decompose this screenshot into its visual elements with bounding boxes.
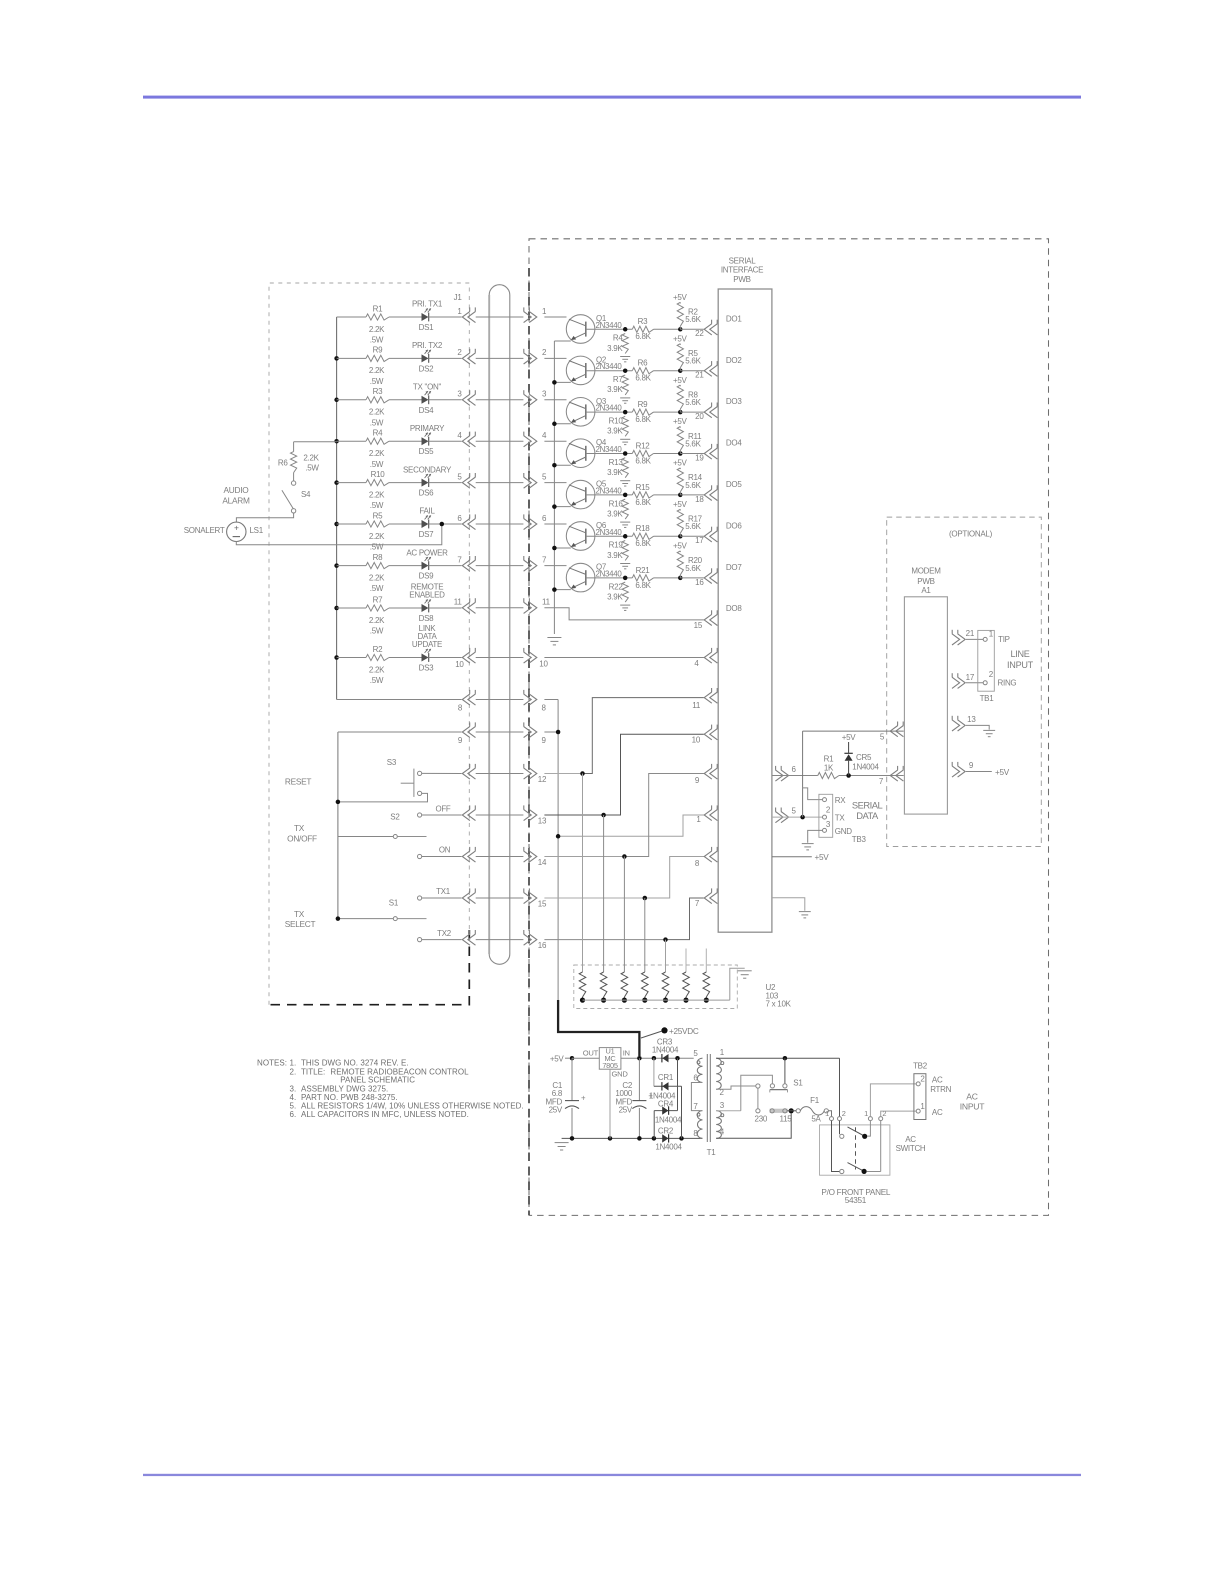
svg-text:5.6K: 5.6K xyxy=(685,357,701,366)
resistor U2-4 10K xyxy=(644,898,646,972)
terminal block TB2 xyxy=(914,1074,926,1120)
svg-text:R5: R5 xyxy=(373,511,383,520)
svg-text:9: 9 xyxy=(458,736,463,745)
svg-text:7: 7 xyxy=(879,777,884,786)
wire fuse to AC switch xyxy=(828,1111,831,1117)
serial PWB pin 6 chevron xyxy=(781,770,789,781)
AC switch pole 1 xyxy=(839,1121,841,1135)
svg-text:2: 2 xyxy=(842,1109,846,1118)
resistor R13 3.9K xyxy=(622,458,628,478)
transformer T1 xyxy=(697,1058,702,1082)
serial PWB pin 19 chevron xyxy=(704,448,712,459)
svg-text:9: 9 xyxy=(969,761,974,770)
svg-text:CR5: CR5 xyxy=(856,753,872,762)
ribbon cable J1 xyxy=(489,285,510,965)
svg-text:+25VDC: +25VDC xyxy=(669,1027,699,1036)
svg-text:6: 6 xyxy=(792,765,797,774)
wire DS9 to J1-7 xyxy=(429,565,462,567)
svg-text:230: 230 xyxy=(755,1114,768,1123)
svg-text:+5V: +5V xyxy=(673,417,688,426)
svg-text:R3: R3 xyxy=(638,317,648,326)
svg-text:2N3440: 2N3440 xyxy=(596,362,623,371)
svg-text:1: 1 xyxy=(864,1109,868,1118)
resistor R19 3.9K xyxy=(622,541,628,561)
svg-text:AC: AC xyxy=(966,1091,977,1101)
svg-text:ALL CAPACITORS IN MFC, UNLESS: ALL CAPACITORS IN MFC, UNLESS NOTED. xyxy=(301,1110,469,1119)
LED DS4 xyxy=(422,396,429,404)
svg-text:+5V: +5V xyxy=(673,500,688,509)
svg-text:16: 16 xyxy=(538,941,547,950)
wire Q7 emitter to bus xyxy=(554,589,570,591)
svg-text:MODEM: MODEM xyxy=(911,567,941,576)
wire Q4 emitter to bus xyxy=(554,464,570,466)
svg-text:CR4: CR4 xyxy=(658,1099,674,1108)
svg-text:INPUT: INPUT xyxy=(1007,660,1034,670)
svg-text:A1: A1 xyxy=(921,586,931,595)
connector J1 pin 13 chevrons xyxy=(462,809,470,820)
resistor U2-7 10K xyxy=(705,949,707,973)
wire J1-14 to serial PWB pin 9 xyxy=(544,856,624,858)
svg-text:TX: TX xyxy=(835,814,846,823)
svg-text:3.9K: 3.9K xyxy=(607,509,623,518)
svg-text:R4: R4 xyxy=(613,334,623,343)
svg-text:LINE: LINE xyxy=(1010,649,1029,659)
svg-text:2.2K: 2.2K xyxy=(369,573,385,582)
svg-text:17: 17 xyxy=(966,673,975,682)
serial PWB pin 7 chevron xyxy=(704,892,712,903)
connector J1 pin 11 chevrons xyxy=(462,602,470,613)
svg-text:11: 11 xyxy=(454,598,463,607)
resistor R10 3.9K xyxy=(622,416,628,436)
svg-text:CR2: CR2 xyxy=(658,1127,674,1136)
svg-text:R1: R1 xyxy=(824,754,834,763)
svg-text:+5V: +5V xyxy=(673,542,688,551)
svg-text:PRI. TX2: PRI. TX2 xyxy=(412,341,443,350)
transistor emitter bus xyxy=(553,341,555,634)
svg-text:UPDATE: UPDATE xyxy=(412,640,442,649)
modem pin 13 chevron to ground xyxy=(958,720,966,731)
modem pin 5 chevron xyxy=(890,726,898,737)
svg-text:11: 11 xyxy=(542,598,551,607)
wire fuse terminal to pole 2 xyxy=(832,1121,840,1172)
svg-text:2.2K: 2.2K xyxy=(369,366,385,375)
resistor R5 2.2K xyxy=(337,523,366,525)
svg-text:S2: S2 xyxy=(390,813,400,822)
svg-text:4: 4 xyxy=(720,1128,725,1137)
+25VDC tag xyxy=(641,1031,663,1038)
svg-text:.5W: .5W xyxy=(370,584,384,593)
svg-text:R19: R19 xyxy=(609,541,624,550)
LED DS1 xyxy=(422,313,429,321)
wire T1 pin6-pin7 link xyxy=(691,1083,702,1111)
resistor U2-1 10K xyxy=(582,774,584,973)
svg-text:3: 3 xyxy=(542,390,547,399)
ground (R10) xyxy=(620,438,630,440)
svg-text:R9: R9 xyxy=(373,346,383,355)
serial interface connector box xyxy=(718,289,772,932)
svg-text:DS8: DS8 xyxy=(419,614,435,623)
svg-text:+5V: +5V xyxy=(673,293,688,302)
svg-text:R7: R7 xyxy=(373,595,383,604)
resistor U2-6 10K xyxy=(685,949,687,973)
resistor R3 2.2K xyxy=(337,399,366,401)
capacitor C2 1000MFD xyxy=(638,1058,640,1100)
svg-text:1N4004: 1N4004 xyxy=(852,763,879,772)
ground (emitter bus) xyxy=(547,637,561,639)
svg-text:R12: R12 xyxy=(636,441,651,450)
svg-text:25V: 25V xyxy=(619,1106,633,1115)
resistor R6 6.8K xyxy=(632,368,653,374)
serial PWB pin 21 chevron xyxy=(704,365,712,376)
svg-text:TX: TX xyxy=(294,909,305,919)
svg-text:10: 10 xyxy=(539,660,548,669)
wire DS1 to J1-1 xyxy=(429,316,462,318)
wire DS6 to J1-5 xyxy=(429,482,462,484)
serial PWB pin 5 chevron xyxy=(781,812,789,823)
svg-text:DATA: DATA xyxy=(856,810,879,821)
svg-text:TB3: TB3 xyxy=(852,835,867,844)
wire Q6 emitter to bus xyxy=(554,547,570,549)
svg-text:J1: J1 xyxy=(454,293,463,302)
diode CR4 1N4004 xyxy=(677,1058,679,1110)
svg-text:3: 3 xyxy=(457,390,462,399)
svg-text:SECONDARY: SECONDARY xyxy=(403,465,452,474)
wire J1-10 to serial PWB pin 4 xyxy=(544,657,703,659)
svg-text:T1: T1 xyxy=(707,1148,717,1157)
svg-text:3: 3 xyxy=(720,1101,725,1110)
svg-text:ON/OFF: ON/OFF xyxy=(287,834,317,844)
ground (TB3) xyxy=(802,843,814,845)
terminal block TB1 xyxy=(978,630,995,691)
svg-text:12: 12 xyxy=(538,775,547,784)
wire Q1 emitter to bus xyxy=(554,340,570,342)
svg-text:5: 5 xyxy=(457,472,462,481)
svg-text:PRIMARY: PRIMARY xyxy=(410,424,445,433)
modem PWB A1 box xyxy=(904,597,947,814)
svg-text:2.2K: 2.2K xyxy=(369,665,385,674)
LED DS9 xyxy=(422,562,429,570)
svg-text:S3: S3 xyxy=(387,758,397,767)
svg-text:RING: RING xyxy=(998,679,1017,688)
svg-text:3.9K: 3.9K xyxy=(607,468,623,477)
modem pin 7 chevron xyxy=(890,770,898,781)
wire J1-9 left xyxy=(338,731,462,733)
svg-text:2N3440: 2N3440 xyxy=(596,321,623,330)
svg-text:8: 8 xyxy=(695,859,700,868)
modem optional dashed box xyxy=(887,517,1042,846)
wire pin6 to R1 xyxy=(772,775,818,777)
modem pin 9 chevron to +5V xyxy=(958,766,966,777)
resistor R9 2.2K xyxy=(337,357,366,359)
resistor R16 3.9K xyxy=(622,499,628,519)
svg-text:16: 16 xyxy=(695,578,704,587)
svg-text:R7: R7 xyxy=(613,375,623,384)
connector J1 pin 6 chevrons xyxy=(462,518,470,529)
svg-text:R16: R16 xyxy=(609,499,624,508)
svg-text:4: 4 xyxy=(694,659,699,668)
resistor R8 2.2K xyxy=(337,565,366,567)
svg-text:1: 1 xyxy=(825,1109,829,1118)
svg-text:IN: IN xyxy=(623,1049,630,1058)
wire DS5 to J1-4 xyxy=(429,440,462,442)
node CR5/R1 xyxy=(839,775,904,777)
svg-text:LS1: LS1 xyxy=(250,526,264,535)
svg-text:TX "ON": TX "ON" xyxy=(413,383,442,392)
wire DS3 to J1-10 xyxy=(429,657,462,659)
svg-text:(OPTIONAL): (OPTIONAL) xyxy=(949,530,993,539)
svg-text:.5W: .5W xyxy=(370,377,384,386)
svg-text:6.8K: 6.8K xyxy=(635,498,651,507)
svg-text:7: 7 xyxy=(542,555,547,564)
switch S4 and resistor R6 2.2K xyxy=(294,441,337,443)
serial PWB pin 4 chevron xyxy=(704,652,712,663)
resistor R7 2.2K xyxy=(337,607,366,609)
wire J1-9 to +25VDC line xyxy=(544,731,558,733)
resistor U2-5 10K xyxy=(665,940,667,972)
svg-text:NOTES:: NOTES: xyxy=(257,1059,287,1068)
svg-text:14: 14 xyxy=(538,858,547,867)
serial interface PWB dashed box xyxy=(529,239,1049,1216)
svg-text:5: 5 xyxy=(693,1049,698,1058)
svg-text:DO8: DO8 xyxy=(726,604,742,613)
svg-text:2.2K: 2.2K xyxy=(369,408,385,417)
svg-text:ON: ON xyxy=(439,845,451,854)
resistor network U2 dashed box xyxy=(574,965,738,1009)
svg-text:15: 15 xyxy=(538,899,547,908)
svg-text:TB2: TB2 xyxy=(913,1062,928,1071)
wire sonalert return to FAIL row xyxy=(236,524,441,545)
svg-text:R9: R9 xyxy=(638,400,648,409)
svg-text:TIP: TIP xyxy=(998,635,1010,644)
resistor R4 2.2K xyxy=(337,440,366,442)
svg-text:TX1: TX1 xyxy=(436,887,450,896)
ground (U2) xyxy=(738,970,752,972)
page bottom rule xyxy=(143,1474,1081,1476)
svg-text:5.6K: 5.6K xyxy=(685,522,701,531)
svg-text:2: 2 xyxy=(542,348,547,357)
svg-text:R18: R18 xyxy=(636,524,651,533)
svg-text:DO3: DO3 xyxy=(726,397,742,406)
wire DS2 to J1-2 xyxy=(429,357,462,359)
LED DS6 xyxy=(422,479,429,487)
svg-text:.5W: .5W xyxy=(370,460,384,469)
node +5V xyxy=(570,1056,575,1061)
svg-text:25V: 25V xyxy=(549,1106,563,1115)
serial PWB pin 20 chevron xyxy=(704,407,712,418)
serial PWB pin 16 chevron xyxy=(704,572,712,583)
svg-text:2: 2 xyxy=(826,805,831,814)
svg-text:11: 11 xyxy=(692,701,701,710)
svg-text:19: 19 xyxy=(695,453,704,462)
serial PWB pin 11 chevron xyxy=(704,692,712,703)
svg-text:6: 6 xyxy=(457,514,462,523)
svg-text:2N3440: 2N3440 xyxy=(596,445,623,454)
wire Q5 base node xyxy=(586,494,633,496)
svg-text:4: 4 xyxy=(542,431,547,440)
ground stub (serial PWB pin7 row) xyxy=(772,898,805,911)
svg-text:6.8K: 6.8K xyxy=(635,539,651,548)
transistor Q1 2N3440 xyxy=(544,316,566,318)
wire J1-13 to serial PWB pin 10 xyxy=(544,814,603,816)
svg-text:.5W: .5W xyxy=(305,464,319,473)
ground (R16) xyxy=(620,521,630,523)
svg-text:GND: GND xyxy=(612,1070,629,1079)
connector J1 pin 4 chevrons xyxy=(462,436,470,447)
wire U1 GND xyxy=(609,1069,611,1138)
svg-text:DO4: DO4 xyxy=(726,439,742,448)
resistor R1 1K xyxy=(818,772,839,778)
connector J1 pin 10 chevrons xyxy=(462,652,470,663)
serial PWB pin 15 chevron (DO8) xyxy=(704,614,712,625)
svg-text:R6: R6 xyxy=(278,458,288,467)
resistor R22 3.9K xyxy=(622,582,628,602)
resistor R15 6.8K xyxy=(632,492,653,498)
svg-text:5: 5 xyxy=(880,732,885,741)
regulator U1 MC7805 xyxy=(599,1048,621,1070)
svg-text:ENABLED: ENABLED xyxy=(409,591,445,600)
svg-text:.5W: .5W xyxy=(370,676,384,685)
connector J1 pin 12 chevrons xyxy=(462,768,470,779)
svg-text:SWITCH: SWITCH xyxy=(896,1144,926,1153)
svg-text:DS5: DS5 xyxy=(419,447,435,456)
svg-text:7: 7 xyxy=(693,1102,698,1111)
ground (R7) xyxy=(620,397,630,399)
transistor Q2 2N3440 xyxy=(544,357,566,359)
front panel dashed box xyxy=(269,283,469,1005)
serial PWB pin 8 chevron xyxy=(704,851,712,862)
AC switch link (dashed) xyxy=(855,1127,857,1169)
resistor R1 2.2K xyxy=(337,316,366,318)
svg-text:R10: R10 xyxy=(371,470,386,479)
svg-text:.5W: .5W xyxy=(370,627,384,636)
svg-text:2.: 2. xyxy=(290,1067,297,1076)
svg-text:15: 15 xyxy=(694,621,703,630)
connector J1 pin 5 chevrons xyxy=(462,477,470,488)
svg-text:2N3440: 2N3440 xyxy=(596,528,623,537)
svg-text:9: 9 xyxy=(695,776,700,785)
wire Q4 base node xyxy=(586,453,633,455)
svg-text:INTERFACE: INTERFACE xyxy=(721,266,763,275)
svg-text:20: 20 xyxy=(695,412,704,421)
svg-text:SERIAL: SERIAL xyxy=(852,800,883,811)
svg-text:4: 4 xyxy=(457,431,462,440)
svg-text:2N3440: 2N3440 xyxy=(596,404,623,413)
svg-text:5.6K: 5.6K xyxy=(685,439,701,448)
wire J1-16 to serial PWB pin 7 xyxy=(544,939,665,941)
svg-text:DS3: DS3 xyxy=(419,664,435,673)
svg-text:5A: 5A xyxy=(811,1114,821,1123)
node DO4 xyxy=(678,451,683,456)
terminal block TB3 xyxy=(819,794,833,837)
wire DS7 to J1-6 xyxy=(429,523,462,525)
ground (R19) xyxy=(620,563,630,565)
LED DS5 xyxy=(422,437,429,445)
svg-text:2: 2 xyxy=(989,670,994,679)
svg-text:PWB: PWB xyxy=(733,275,750,284)
serial PWB pin 17 chevron xyxy=(704,531,712,542)
svg-text:.5W: .5W xyxy=(370,543,384,552)
svg-text:10: 10 xyxy=(692,736,701,745)
svg-text:13: 13 xyxy=(538,816,547,825)
svg-text:RX: RX xyxy=(835,796,846,805)
wire J1-12 to serial PWB pin 11 (RESET) xyxy=(544,773,582,775)
U2 common line to ground xyxy=(583,999,730,1001)
svg-text:+5V: +5V xyxy=(842,733,857,742)
svg-text:FAIL: FAIL xyxy=(419,507,435,516)
wire J1-15 to serial PWB pin 8 xyxy=(544,897,644,899)
svg-text:RTRN: RTRN xyxy=(930,1085,951,1094)
svg-text:5: 5 xyxy=(792,806,797,815)
wire pin5 to TB3 TX / modem pin 5 xyxy=(772,816,822,818)
svg-text:54351: 54351 xyxy=(845,1196,867,1205)
wire Q3 emitter to bus xyxy=(554,423,570,425)
svg-text:DS9: DS9 xyxy=(419,572,435,581)
svg-text:AC POWER: AC POWER xyxy=(406,548,448,557)
wire Q6 base node xyxy=(586,535,633,537)
wire DS8 to J1-11 xyxy=(429,607,462,609)
svg-text:8: 8 xyxy=(458,704,463,713)
diode CR2 1N4004 xyxy=(653,1111,655,1139)
diode CR5 1N4004 xyxy=(848,761,850,776)
svg-text:3: 3 xyxy=(826,820,831,829)
svg-text:GND: GND xyxy=(835,827,852,836)
svg-text:R8: R8 xyxy=(373,553,383,562)
svg-text:DO5: DO5 xyxy=(726,480,742,489)
svg-text:PWB: PWB xyxy=(917,577,934,586)
transistor Q3 2N3440 xyxy=(544,399,566,401)
svg-text:1: 1 xyxy=(920,1102,925,1111)
svg-text:+5V: +5V xyxy=(995,768,1010,777)
svg-text:PRI. TX1: PRI. TX1 xyxy=(412,300,443,309)
svg-text:+5V: +5V xyxy=(815,853,830,862)
ground (R13) xyxy=(620,480,630,482)
svg-text:R22: R22 xyxy=(609,582,624,591)
diode CR3 1N4004 xyxy=(661,1054,663,1062)
svg-text:6: 6 xyxy=(542,514,547,523)
svg-text:+5V: +5V xyxy=(550,1055,565,1064)
svg-text:+5V: +5V xyxy=(673,334,688,343)
svg-text:DO6: DO6 xyxy=(726,521,742,530)
svg-text:TB1: TB1 xyxy=(980,694,995,703)
resistor R17 5.6K xyxy=(677,509,683,533)
resistor R2 2.2K xyxy=(337,657,366,659)
svg-text:R6: R6 xyxy=(638,359,648,368)
svg-text:5.6K: 5.6K xyxy=(685,481,701,490)
wire AC switch to TB2 xyxy=(870,1084,916,1117)
sonalert LS1 xyxy=(227,522,246,541)
svg-text:DS1: DS1 xyxy=(419,323,435,332)
svg-text:6.: 6. xyxy=(290,1110,297,1119)
svg-text:2.2K: 2.2K xyxy=(369,325,385,334)
svg-text:R13: R13 xyxy=(609,458,624,467)
svg-text:OUT: OUT xyxy=(583,1049,599,1058)
ground (R4) xyxy=(620,356,630,358)
svg-text:2N3440: 2N3440 xyxy=(596,569,623,578)
wire Q3 base node xyxy=(586,411,633,413)
svg-text:TX: TX xyxy=(294,823,305,833)
svg-text:TX2: TX2 xyxy=(437,929,451,938)
svg-text:2.2K: 2.2K xyxy=(303,454,319,463)
svg-text:2.2K: 2.2K xyxy=(369,449,385,458)
svg-text:1: 1 xyxy=(720,1048,725,1057)
svg-text:+: + xyxy=(581,1093,586,1102)
connector J1 pin 8 chevrons xyxy=(462,694,470,705)
svg-text:22: 22 xyxy=(695,329,704,338)
svg-text:+5V: +5V xyxy=(673,459,688,468)
node DO6 xyxy=(678,534,683,539)
svg-text:ALARM: ALARM xyxy=(222,495,250,505)
svg-text:SONALERT: SONALERT xyxy=(184,526,225,535)
